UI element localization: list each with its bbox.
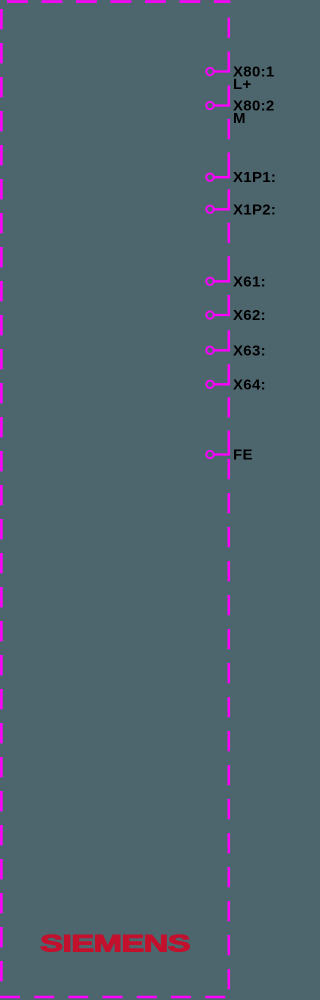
pin X1P1: <box>206 169 276 186</box>
wire left border (dashed) <box>0 9 3 982</box>
wire right border segment top to X80:1 <box>228 18 231 72</box>
pin X80:2 (M) <box>206 98 274 128</box>
svg-text:FE: FE <box>233 447 253 464</box>
wire right border segment X1P2 to X61 <box>228 209 231 281</box>
wire right border segment X62 to X63 <box>228 315 231 350</box>
pin FE <box>206 447 252 464</box>
pin X1P2: <box>206 201 276 218</box>
svg-text:X63:: X63: <box>233 342 266 359</box>
wire right border segment FE to bottom <box>228 459 231 989</box>
pin X80:1 (L+) <box>206 64 274 94</box>
svg-text:X62:: X62: <box>233 307 266 324</box>
wire bottom border (dashed) <box>0 996 227 999</box>
wire right border segment X1P1 to X1P2 <box>228 177 231 209</box>
wire right border segment X80:1 to X80:2 <box>228 72 231 106</box>
pin X62: <box>206 307 266 324</box>
SIEMENS logo <box>40 930 190 957</box>
svg-text:M: M <box>233 110 246 127</box>
pin X64: <box>206 376 266 393</box>
wire right border segment X63 to X64 <box>228 350 231 384</box>
svg-text:X1P1:: X1P1: <box>233 169 275 186</box>
pin X61: <box>206 273 266 290</box>
wire right border segment X61 to X62 <box>228 281 231 315</box>
svg-text:SIEMENS: SIEMENS <box>40 930 190 957</box>
svg-text:X64:: X64: <box>233 376 266 393</box>
wire right border segment X64 to FE <box>228 384 231 454</box>
pin X63: <box>206 342 266 359</box>
wire top border (dashed) <box>7 0 230 3</box>
svg-text:X1P2:: X1P2: <box>233 201 275 218</box>
wire right border segment X80:2 to X1P1 <box>228 106 231 178</box>
svg-text:X61:: X61: <box>233 273 266 290</box>
svg-text:L+: L+ <box>233 76 252 93</box>
